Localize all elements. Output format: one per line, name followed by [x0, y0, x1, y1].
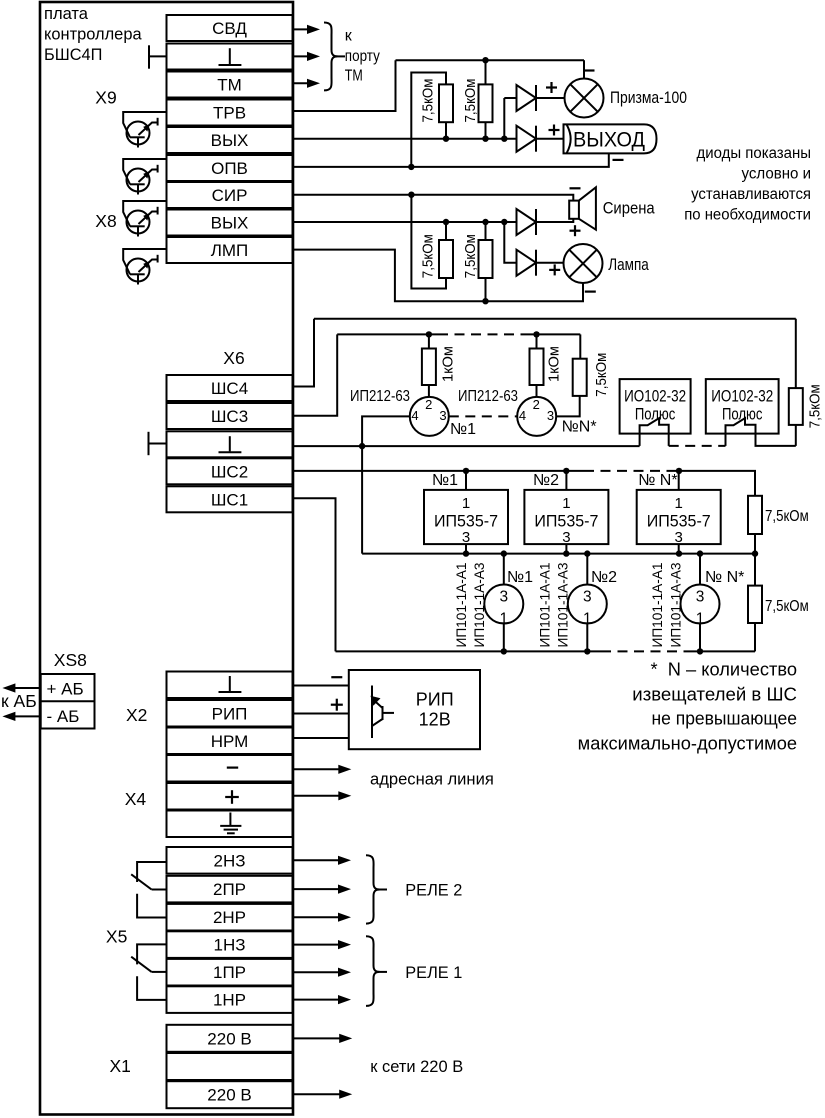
svg-text:7,5кОм: 7,5кОм — [462, 234, 479, 278]
junction top lead (№2) — [584, 550, 590, 556]
bottom return bus solid parts — [336, 650, 602, 652]
svg-text:ИП212-63: ИП212-63 — [350, 388, 410, 405]
resistor R2 7,5кОм — [479, 84, 493, 122]
wire VD3 to siren plus — [536, 219, 573, 222]
wire VD2 to ВЫХОД — [536, 138, 564, 140]
dashed wire pin3 det1 to pin4 det2 — [449, 415, 517, 417]
ground symbol inside ШС ground box — [229, 436, 231, 451]
svg-text:контроллера: контроллера — [44, 25, 142, 44]
resistor R4 7,5кОм — [479, 240, 493, 278]
terminal box 1ПР — [167, 959, 293, 986]
chassis ground stub left of ШС stack — [148, 432, 150, 455]
ШС3 second rail solid parts — [337, 333, 438, 335]
svg-text:РИП: РИП — [416, 690, 454, 710]
junction bus/box1 — [463, 550, 469, 556]
terminal box ШС3 — [167, 403, 293, 429]
svg-text:1: 1 — [562, 495, 570, 512]
svg-text:ИО102-32: ИО102-32 — [711, 388, 773, 406]
arrow адресная линия plus — [293, 795, 342, 797]
svg-text:№1: №1 — [432, 472, 458, 489]
junction VD1 riser — [501, 136, 507, 142]
arrow адресная линия minus — [293, 768, 342, 770]
svg-text:2: 2 — [425, 397, 432, 412]
svg-text:ВЫХОД: ВЫХОД — [573, 128, 645, 151]
resistor R1 bottom lead — [445, 122, 447, 139]
diode VD4 — [517, 250, 537, 276]
terminal box СИР (top stack) — [167, 182, 293, 208]
ИО102 (1) bottom leads — [639, 434, 641, 446]
svg-text:3: 3 — [462, 529, 470, 546]
svg-text:1НР: 1НР — [213, 991, 246, 1010]
svg-text:3: 3 — [439, 408, 446, 423]
terminal box 220В — [167, 1081, 293, 1108]
wire ШС4 row to top loop rail — [293, 319, 315, 387]
plus sign at lamp Призма — [546, 86, 557, 88]
plus sign at ВЫХОД — [549, 129, 560, 131]
detector box ИП535-7 (№ N*) — [678, 471, 680, 490]
svg-text:Лампа: Лампа — [608, 256, 649, 274]
resistor R7 7,5кОм loop — [579, 334, 581, 358]
svg-text:* N – количество: * N – количество — [651, 660, 798, 680]
svg-text:№N*: №N* — [562, 419, 597, 436]
svg-text:ТМ: ТМ — [217, 76, 242, 95]
ШС2 rail dashed part — [584, 470, 672, 472]
junction R1 bottom — [443, 136, 449, 142]
svg-text:№1: №1 — [507, 569, 533, 586]
svg-text:РИП: РИП — [212, 704, 248, 723]
ШС2 rail right part to R9 — [672, 471, 755, 496]
resistor R8 7,5кОм — [789, 388, 803, 425]
resistor R3 7,5кОм — [439, 240, 453, 278]
resistor R3 top lead — [445, 222, 447, 240]
svg-text:XS8: XS8 — [54, 650, 87, 670]
resistor R6 1кОм — [530, 349, 544, 386]
svg-text:1: 1 — [675, 495, 683, 512]
resistor R3 7,5кОм left loop — [411, 195, 446, 289]
ИП101 (№ N*) bottom lead — [699, 624, 701, 652]
terminal box ТМ (top stack) — [167, 72, 293, 98]
resistor R6 1кОм lead — [536, 334, 538, 348]
wire VD1 to lamp — [536, 97, 565, 99]
svg-text:Х9: Х9 — [95, 88, 116, 108]
transistor symbol inside РИП — [371, 686, 373, 739]
junction ОПВ/R1 — [408, 164, 414, 170]
svg-text:к сети 220 В: к сети 220 В — [370, 1057, 463, 1076]
svg-text:ИП101-1А-А1: ИП101-1А-А1 — [538, 563, 553, 648]
svg-text:ТМ: ТМ — [345, 68, 363, 85]
junction R6 top — [533, 331, 539, 337]
plus glyph in X4 plus box — [225, 796, 239, 798]
diode VD2 — [517, 126, 537, 152]
svg-text:адресная линия: адресная линия — [370, 770, 494, 789]
relay row arrow y=999.6 — [293, 999, 342, 1001]
chassis ground stub left of top stack — [148, 45, 150, 68]
transistor VT1 (open-collector output) — [123, 112, 166, 137]
svg-text:ИП212-63: ИП212-63 — [458, 388, 518, 405]
minus sign below ВЫХОД — [613, 159, 624, 161]
wire ВЫХ row rail — [293, 138, 517, 140]
wire ВЫХ row to diode VD3 — [293, 221, 517, 223]
svg-text:3: 3 — [696, 589, 705, 606]
terminal box ШС1 — [167, 486, 293, 512]
terminal box 1НР — [167, 986, 293, 1013]
arrow СВД to TM port — [293, 28, 311, 30]
svg-text:к: к — [345, 28, 353, 45]
junction ИП535-1 top — [463, 468, 469, 474]
resistor R9 7,5кОм — [748, 496, 762, 534]
svg-text:ИП101-1А-А1: ИП101-1А-А1 — [650, 563, 665, 648]
resistor R1 7,5кОм top loop — [411, 73, 446, 167]
siren speaker symbol — [579, 187, 596, 229]
terminal box ШС2 — [167, 458, 293, 484]
controller plate БШС4П outline — [40, 2, 293, 1115]
thermal detector ИП101 (№1) top lead — [503, 554, 505, 585]
terminal box ШС4 — [167, 375, 293, 401]
svg-text:условно и: условно и — [742, 166, 812, 183]
wire branch to diode VD4 — [504, 222, 516, 263]
reed switch inside ИО102 (2) — [726, 418, 756, 433]
svg-text:- АБ: - АБ — [47, 707, 80, 726]
transistor VT2 (open-collector output) — [123, 159, 166, 184]
ИП535 (№2) bottom lead — [565, 544, 567, 554]
svg-text:ВЫХ: ВЫХ — [211, 214, 249, 233]
terminal box 220В — [167, 1025, 293, 1052]
R10 top lead — [754, 554, 756, 586]
svg-text:2НР: 2НР — [213, 908, 246, 927]
wire ШС2 rail solid part — [293, 470, 585, 472]
brace for TM port group — [324, 23, 338, 91]
terminal box 2ПР — [167, 876, 293, 903]
svg-text:4: 4 — [519, 408, 526, 423]
junction bus/R9 — [752, 550, 758, 556]
svg-text:ШС1: ШС1 — [211, 490, 248, 509]
wire ЛМП row return rail — [293, 250, 584, 302]
plus sign at siren — [570, 230, 581, 232]
battery connector box XS8 — [41, 674, 95, 729]
resistor R2 bottom lead — [485, 122, 487, 139]
svg-text:1кОм: 1кОм — [440, 346, 457, 382]
ИП101 (№1) bottom lead — [503, 624, 505, 652]
svg-text:220 В: 220 В — [207, 1086, 251, 1105]
terminal box plus — [167, 783, 293, 810]
junction ИП535-3 top — [676, 468, 682, 474]
wire R7 bottom to pin3 det N — [556, 396, 580, 417]
relay row arrow y=917.2 — [293, 916, 342, 918]
svg-text:3: 3 — [675, 529, 683, 546]
terminal box СВД (top stack) — [167, 15, 293, 41]
svg-text:НРМ: НРМ — [211, 732, 249, 751]
svg-text:1НЗ: 1НЗ — [214, 936, 246, 955]
thermal detector ИП101 (№ N*) top lead — [699, 554, 701, 585]
ground symbol inside 2nd box of top stack — [229, 48, 231, 64]
svg-text:ШС4: ШС4 — [211, 379, 248, 398]
resistor R4 leads — [485, 222, 487, 240]
R9 bottom lead — [754, 534, 756, 554]
svg-text:2: 2 — [533, 397, 540, 412]
arrow 220В top — [293, 1037, 343, 1039]
minus sign at РИП — [331, 676, 342, 678]
junction top lead (№1) — [501, 550, 507, 556]
svg-text:220 В: 220 В — [207, 1029, 251, 1048]
ground branch down to bus — [361, 446, 363, 553]
thermal detector circle ИП101 (№2) — [568, 585, 607, 624]
svg-text:Х2: Х2 — [126, 705, 147, 725]
junction ИП535-2 top — [563, 468, 569, 474]
thermal detector circle ИП101 (№1) — [484, 585, 523, 624]
junction R3 top — [443, 219, 449, 225]
svg-text:Х6: Х6 — [223, 348, 244, 368]
resistor R5 1кОм — [422, 349, 436, 386]
minus glyph in X4 minus box — [227, 766, 238, 768]
svg-text:СИР: СИР — [212, 186, 248, 205]
svg-text:3: 3 — [562, 529, 570, 546]
svg-text:ИО102-32: ИО102-32 — [624, 388, 686, 406]
top rail wire to lamp Призма — [396, 59, 585, 61]
transistor VT3 (open-collector output) — [123, 201, 166, 226]
ШС4 top rail — [314, 318, 796, 320]
wire riser to diode VD1 — [503, 98, 505, 139]
terminal box GND-X2 — [167, 672, 293, 699]
svg-text:к АБ: к АБ — [1, 691, 37, 711]
ВЫХОД cable marker shape — [564, 124, 657, 153]
svg-text:ВЫХ: ВЫХ — [211, 131, 249, 150]
wire ТРВ row to top rail — [293, 60, 396, 111]
wire pin4 of detector1 to ground branch — [362, 416, 410, 446]
box ИО102-32 Полюс (1) — [620, 379, 691, 434]
svg-text:7,5кОм: 7,5кОм — [765, 598, 809, 615]
R10 riser from bus — [754, 623, 756, 651]
svg-text:СВД: СВД — [212, 19, 247, 38]
svg-text:3: 3 — [499, 589, 508, 606]
resistor R1 7,5кОм — [439, 84, 453, 122]
arrow 220В bottom — [293, 1093, 343, 1095]
reed switch inside ИО102 (1) — [640, 418, 669, 433]
wire ШС1 row down-left loop — [293, 498, 336, 651]
svg-text:7,5кОм: 7,5кОм — [765, 508, 809, 525]
relay contact group K2 — [137, 862, 166, 882]
svg-text:ИП101-1А-А3: ИП101-1А-А3 — [556, 563, 571, 648]
svg-text:2ПР: 2ПР — [213, 880, 246, 899]
svg-text:1: 1 — [462, 495, 470, 512]
plus sign at lamp Лампа — [549, 269, 560, 271]
junction top lead (№ N*) — [697, 550, 703, 556]
svg-text:ИП535-7: ИП535-7 — [434, 512, 498, 531]
minus sign above lamp Призма — [584, 69, 595, 71]
svg-text:Призма-100: Призма-100 — [610, 89, 687, 107]
arrow ТМ to TM port — [293, 82, 311, 84]
terminal box 2НР — [167, 904, 293, 931]
svg-text:извещателей в ШС: извещателей в ШС — [632, 684, 797, 704]
emitter arrow in РИП — [371, 696, 381, 706]
ground rail of ШС loops — [293, 445, 640, 447]
detector box ИП535-7 (№2) — [565, 471, 567, 490]
svg-text:ОПВ: ОПВ — [211, 159, 248, 178]
lamp Призма-100 — [565, 79, 604, 118]
svg-text:7,5кОм: 7,5кОм — [420, 234, 437, 278]
plus sign at РИП — [331, 704, 343, 706]
transistor VT4 (open-collector output) — [123, 249, 166, 274]
lamp Лампа — [564, 244, 603, 283]
resistor R7 7,5кОм — [573, 359, 587, 396]
arrow GND to TM port — [293, 55, 311, 57]
dashed link between ИО102 boxes — [669, 445, 726, 447]
terminal box ТРВ (top stack) — [167, 100, 293, 126]
resistor R10 7,5кОм — [748, 586, 762, 623]
arrow +АБ to battery — [12, 687, 40, 689]
terminal box ЛМП (top stack) — [167, 237, 293, 263]
svg-text:+ АБ: + АБ — [47, 680, 84, 699]
earth symbol inside X4 earth box — [229, 813, 231, 826]
svg-text:РЕЛЕ 2: РЕЛЕ 2 — [405, 881, 462, 900]
svg-text:по необходимости: по необходимости — [684, 206, 811, 223]
svg-text:ШС2: ШС2 — [211, 462, 248, 481]
junction R2 top — [482, 57, 488, 63]
detector box ИП535-7 (№1) — [465, 471, 467, 490]
svg-text:ЛМП: ЛМП — [211, 241, 249, 260]
terminal box earth — [167, 811, 293, 838]
svg-text:Х8: Х8 — [95, 211, 116, 231]
ground symbol inside X2 ground box — [229, 676, 231, 691]
svg-text:плата: плата — [44, 4, 89, 23]
svg-text:1кОм: 1кОм — [546, 346, 563, 382]
svg-text:устанавливаются: устанавливаются — [691, 186, 811, 203]
wire НРМ row to РИП box — [293, 737, 349, 739]
svg-text:максимально-допустимое: максимально-допустимое — [578, 733, 797, 753]
relay contact group K1 — [137, 944, 166, 964]
wire ШС3 row to second rail — [293, 334, 338, 415]
junction СИР/R3 — [408, 192, 414, 198]
svg-text:ИП101-1А-А1: ИП101-1А-А1 — [454, 563, 469, 648]
svg-text:ИП535-7: ИП535-7 — [534, 512, 598, 531]
ИП535 (№ N*) bottom lead — [678, 544, 680, 554]
box РИП 12В — [349, 670, 480, 749]
junction ground/pin4 branch — [359, 443, 365, 449]
svg-text:Х5: Х5 — [106, 927, 127, 947]
wire VD4 to lamp — [536, 262, 564, 264]
svg-text:ШС3: ШС3 — [211, 407, 248, 426]
wire РИП row to РИП box — [293, 713, 349, 715]
relay row arrow y=889.1 — [293, 888, 342, 890]
resistor R8 7,5кОм riser — [795, 319, 797, 388]
thermal detector circle ИП101 (№ N*) — [681, 585, 720, 624]
svg-text:№2: №2 — [533, 472, 559, 489]
svg-text:7,5кОм: 7,5кОм — [593, 353, 610, 397]
wire СИР row to siren — [293, 195, 574, 201]
wire ОПВ row to ВЫХОД minus — [293, 153, 609, 167]
arrow -АБ to battery — [12, 715, 40, 717]
relay row arrow y=860.3 — [293, 859, 342, 861]
minus sign above siren — [570, 187, 581, 189]
svg-text:2НЗ: 2НЗ — [214, 851, 246, 870]
junction bottom lead (№ N*) — [697, 648, 703, 654]
svg-text:7,5кОм: 7,5кОм — [462, 79, 479, 123]
terminal box minus — [167, 755, 293, 782]
terminal box НРМ — [167, 728, 293, 755]
brace РЕЛЕ 1 — [366, 936, 380, 1006]
svg-text:ИП101-1А-А3: ИП101-1А-А3 — [472, 563, 487, 648]
svg-text:№ N*: № N* — [705, 569, 744, 586]
terminal box ОПВ (top stack) — [167, 155, 293, 181]
junction bottom lead (№2) — [584, 648, 590, 654]
resistor R2 7,5кОм top lead — [485, 60, 487, 84]
junction R5 top — [426, 331, 432, 337]
svg-text:№ N*: № N* — [638, 472, 677, 489]
diode VD3 — [517, 209, 537, 235]
junction R4 top — [482, 219, 488, 225]
terminal box РИП — [167, 700, 293, 727]
junction bottom lead (№1) — [501, 648, 507, 654]
svg-text:порту: порту — [345, 48, 380, 65]
junction bus/box3 — [676, 550, 682, 556]
svg-text:ИП101-1А-А3: ИП101-1А-А3 — [668, 563, 683, 648]
terminal box 2НЗ — [167, 847, 293, 874]
ШС3 rail dashed part — [438, 333, 523, 335]
terminal box GND (top stack) — [167, 44, 293, 70]
svg-text:БШС4П: БШС4П — [44, 45, 102, 64]
svg-text:Х1: Х1 — [110, 1056, 131, 1076]
diode VD1 — [517, 85, 537, 111]
terminal box ВЫХ2 (top stack) — [167, 210, 293, 236]
thermal detector ИП101 (№2) top lead — [586, 554, 588, 585]
svg-text:диоды показаны: диоды показаны — [697, 145, 812, 162]
svg-text:3: 3 — [547, 408, 554, 423]
relay row arrow y=944.6 — [293, 944, 342, 946]
smoke detector circle ИП212-63 N1 — [428, 385, 430, 397]
svg-text:Сирена: Сирена — [603, 200, 656, 218]
junction R2 bottom — [482, 136, 488, 142]
wire lamp top lead — [583, 60, 585, 78]
svg-text:№1: №1 — [450, 421, 476, 438]
svg-text:7,5кОм: 7,5кОм — [807, 384, 824, 428]
smoke detector circle ИП212-63 NN — [536, 385, 538, 397]
svg-text:№2: №2 — [591, 569, 617, 586]
minus sign below lamp — [585, 291, 596, 293]
resistor R5 1кОм lead — [428, 334, 430, 348]
svg-text:РЕЛЕ 1: РЕЛЕ 1 — [405, 963, 462, 982]
terminal box spare — [167, 1053, 293, 1080]
svg-text:3: 3 — [583, 589, 592, 606]
junction R4 bottom — [482, 298, 488, 304]
ИП101 (№2) bottom lead — [586, 624, 588, 652]
ИО102 (2) bottom leads — [725, 434, 727, 446]
junction VD4 branch — [501, 219, 507, 225]
relay row arrow y=972.2 — [293, 971, 342, 973]
svg-text:12В: 12В — [419, 710, 451, 730]
bottom return bus dashed part — [601, 650, 692, 652]
terminal box GND-ШС — [167, 431, 293, 457]
junction bus/box2 — [563, 550, 569, 556]
box ИО102-32 Полюс (2) — [706, 379, 779, 434]
svg-text:7,5кОм: 7,5кОм — [420, 79, 437, 123]
pin3 bus of ИП535 group — [362, 553, 755, 555]
svg-text:ТРВ: ТРВ — [213, 104, 246, 123]
svg-text:ИП535-7: ИП535-7 — [647, 512, 711, 531]
brace РЕЛЕ 2 — [366, 855, 380, 923]
wire GND row to РИП box — [293, 685, 349, 687]
svg-text:не превышающее: не превышающее — [652, 709, 798, 729]
ИП535 (№1) bottom lead — [465, 544, 467, 554]
svg-text:1ПР: 1ПР — [213, 963, 246, 982]
svg-text:Х4: Х4 — [125, 789, 147, 809]
terminal box 1НЗ — [167, 931, 293, 958]
svg-text:4: 4 — [411, 408, 418, 423]
terminal box ВЫХ (top stack) — [167, 127, 293, 153]
